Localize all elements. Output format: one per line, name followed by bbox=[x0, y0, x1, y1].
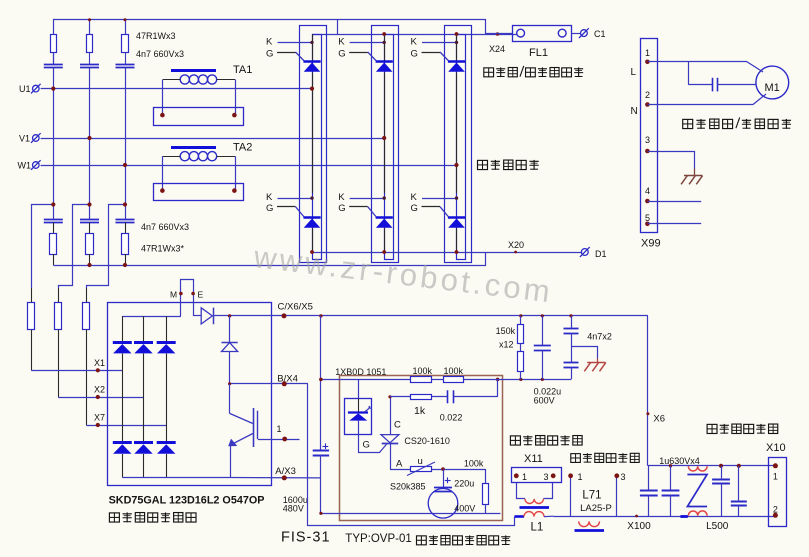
thyristor Q2 (bottom, module 1) bbox=[266, 192, 321, 228]
resistor input X2 bbox=[55, 288, 62, 397]
resistor 47R lower branch 2 bbox=[86, 223, 94, 265]
text 整流与斩波模块 bbox=[109, 512, 196, 522]
svg-text:100k: 100k bbox=[464, 459, 484, 469]
text 励磁电流信号 bbox=[571, 453, 639, 462]
capacitor 1u (2) bbox=[662, 466, 680, 516]
ground X99 bbox=[681, 176, 702, 185]
junction module 2 top bbox=[382, 32, 386, 36]
svg-text:X24: X24 bbox=[489, 44, 505, 54]
svg-text:1: 1 bbox=[773, 472, 778, 482]
label 1600u bbox=[283, 495, 308, 505]
svg-text:A: A bbox=[396, 459, 403, 470]
svg-text:G: G bbox=[266, 49, 273, 60]
wire X6 bbox=[646, 316, 665, 466]
label X2 bbox=[94, 385, 105, 395]
label X7 bbox=[94, 413, 105, 423]
capacitor 4n7x2 pair bbox=[564, 316, 612, 380]
thyristor Q4 (bottom, module 2) bbox=[338, 192, 393, 228]
svg-text:G: G bbox=[338, 49, 345, 60]
svg-text:3: 3 bbox=[645, 135, 650, 145]
svg-text:K: K bbox=[411, 36, 418, 47]
thyristor Q3 (top, module 2) bbox=[338, 36, 393, 71]
wire branch 2 down bbox=[89, 68, 91, 219]
svg-text:G: G bbox=[363, 440, 370, 451]
thyristor CS20-1610 bbox=[381, 395, 450, 469]
svg-text:4: 4 bbox=[645, 186, 650, 196]
diode BOD bbox=[345, 379, 372, 434]
label X1 bbox=[94, 358, 105, 368]
resistor 1k bbox=[411, 395, 432, 418]
connector X11 bbox=[512, 453, 562, 483]
box OVP-01 (brown) bbox=[340, 376, 503, 521]
wire X99 pin1 to motor bbox=[647, 62, 763, 73]
svg-text:L500: L500 bbox=[706, 521, 729, 532]
wire X99 pin5 bbox=[647, 223, 701, 225]
wire lower jogs bbox=[32, 202, 128, 288]
wire A row bbox=[390, 456, 486, 471]
capacitor 4n7 top branch 3 bbox=[116, 65, 135, 68]
svg-text:600V: 600V bbox=[534, 396, 555, 406]
capacitor 1600u 480V bbox=[313, 316, 329, 513]
terminal W1 bbox=[18, 160, 41, 170]
resistor 47R lower branch 3 bbox=[122, 223, 129, 265]
wire column 1 mid bbox=[122, 354, 124, 443]
current sensor L71 bbox=[568, 472, 625, 531]
svg-text:X20: X20 bbox=[508, 240, 524, 250]
wire lower bus bbox=[53, 252, 485, 267]
svg-text:3: 3 bbox=[544, 472, 549, 482]
svg-text:150k: 150k bbox=[496, 326, 516, 336]
wire G path bbox=[359, 435, 387, 453]
diode rectifier top D3 bbox=[157, 343, 176, 354]
wire B/X4 bbox=[228, 381, 308, 386]
svg-text:L: L bbox=[631, 67, 637, 78]
wire W1 bbox=[41, 163, 457, 167]
svg-text:X99: X99 bbox=[641, 238, 661, 250]
thyristor Q5 (top, module 3) bbox=[411, 36, 466, 71]
shunt FL1 bbox=[513, 26, 572, 60]
text 励磁信号反馈 bbox=[510, 435, 582, 445]
svg-text:X1: X1 bbox=[94, 358, 105, 368]
terminal U1 bbox=[19, 84, 41, 94]
svg-text:400V: 400V bbox=[454, 504, 475, 514]
svg-text:M1: M1 bbox=[765, 82, 780, 94]
svg-text:1: 1 bbox=[578, 472, 583, 482]
wire C/X6/X5 bbox=[228, 313, 648, 318]
svg-text:A/X3: A/X3 bbox=[275, 466, 296, 477]
current transformer TA2 bbox=[154, 142, 253, 201]
svg-text:5: 5 bbox=[645, 213, 650, 223]
svg-text:G: G bbox=[338, 203, 345, 214]
svg-text:K: K bbox=[411, 192, 418, 203]
svg-text:1k: 1k bbox=[414, 405, 426, 417]
capacitor 4n7 top branch 1 bbox=[44, 65, 63, 68]
wire X2 bbox=[58, 395, 143, 399]
wire A/X3 bottom bbox=[319, 512, 500, 515]
thyristor module 1 box bbox=[300, 26, 327, 263]
resistor 100k (c) bbox=[464, 459, 489, 514]
wire rectifier top bus bbox=[122, 316, 180, 342]
resistor input X7 bbox=[83, 288, 90, 425]
thyristor module 2 box bbox=[372, 26, 399, 263]
svg-text:FIS-31: FIS-31 bbox=[281, 530, 331, 546]
svg-text:LA25-P: LA25-P bbox=[580, 503, 612, 514]
rectifier box SKD75GAL bbox=[108, 303, 272, 486]
diode rectifier bottom D6 bbox=[157, 443, 176, 454]
svg-text:4n7 660Vx3: 4n7 660Vx3 bbox=[141, 222, 189, 232]
wire column 3 mid bbox=[166, 354, 168, 443]
connector X10 bbox=[766, 442, 787, 527]
capacitor 0.022u 600V bbox=[534, 316, 562, 406]
capacitor 4n7 lower branch 2 bbox=[80, 220, 99, 223]
svg-text:C: C bbox=[394, 420, 401, 431]
label X20 bbox=[508, 240, 524, 250]
ground (4n7 mid) bbox=[571, 347, 606, 372]
svg-text:K: K bbox=[338, 36, 345, 47]
svg-text:C1: C1 bbox=[594, 29, 606, 39]
terminal V1 bbox=[19, 133, 41, 143]
svg-text:X6: X6 bbox=[653, 414, 665, 425]
wire column 1 bottom bbox=[122, 454, 124, 478]
svg-text:C/X6/X5: C/X6/X5 bbox=[278, 302, 313, 313]
junction dots phase to modules bbox=[310, 87, 459, 168]
wire rectifier bottom bus bbox=[122, 477, 230, 479]
svg-text:0.022: 0.022 bbox=[440, 413, 463, 423]
thyristor module 2 conductor bbox=[384, 34, 386, 252]
svg-text:1XB0D 1051: 1XB0D 1051 bbox=[335, 367, 386, 377]
svg-text:V1: V1 bbox=[19, 134, 30, 144]
svg-text:220u: 220u bbox=[454, 479, 474, 489]
svg-text:TYP:OVP-01: TYP:OVP-01 bbox=[345, 533, 411, 545]
wire 1k row bbox=[390, 379, 498, 396]
svg-text:W1: W1 bbox=[18, 161, 32, 171]
svg-text:1u630Vx4: 1u630Vx4 bbox=[659, 456, 700, 466]
label A/X3 bbox=[275, 466, 296, 477]
text 励磁过压保护组件 bbox=[416, 535, 510, 545]
wire OVP top row bbox=[319, 378, 571, 382]
diode freewheel bbox=[222, 316, 238, 384]
svg-text:1: 1 bbox=[522, 472, 527, 482]
svg-text:B/X4: B/X4 bbox=[277, 374, 298, 385]
capacitor 1u (3) bbox=[712, 466, 730, 516]
jumper M-E loop bbox=[170, 280, 204, 317]
svg-text:G: G bbox=[411, 203, 418, 214]
svg-text:L1: L1 bbox=[531, 522, 544, 534]
wire gate 1 bbox=[258, 424, 300, 441]
svg-text:3: 3 bbox=[621, 472, 626, 482]
svg-text:1: 1 bbox=[645, 48, 650, 58]
wire branch 3 down bbox=[125, 68, 127, 219]
diode rectifier bottom D5 bbox=[134, 443, 153, 454]
diode rectifier bottom D4 bbox=[113, 443, 132, 454]
label TYP OVP bbox=[345, 533, 411, 545]
capacitor 220u 400V bbox=[428, 469, 475, 518]
wire X7 bbox=[86, 423, 166, 427]
connector X99 bbox=[631, 39, 661, 250]
wire L1 to X10 bbox=[554, 516, 776, 518]
resistor 100k (b) bbox=[444, 366, 464, 383]
wire X99 pin2 to motor bbox=[647, 94, 766, 105]
capacitor 1u (1) bbox=[640, 466, 658, 516]
svg-text:E: E bbox=[198, 290, 204, 300]
svg-text:G: G bbox=[411, 49, 418, 60]
transistor IGBT chopper bbox=[228, 384, 257, 478]
resistor 47R top branch 2 bbox=[87, 35, 93, 65]
label 47R1Wx3 bbox=[136, 31, 176, 41]
svg-text:FL1: FL1 bbox=[529, 47, 548, 59]
svg-text:X100: X100 bbox=[627, 521, 651, 532]
label 1XB0D bbox=[335, 367, 386, 377]
text 励磁电流输出 bbox=[707, 424, 778, 434]
svg-text:K: K bbox=[266, 36, 273, 47]
label 4n7 660Vx3 bbox=[136, 49, 184, 59]
label C/X6/X5 bbox=[278, 302, 313, 313]
resistor input X1 bbox=[28, 288, 35, 370]
wire B/X4 return bbox=[308, 384, 515, 526]
thyristor Q1 (top, module 1) bbox=[266, 36, 321, 71]
thyristor module 3 conductor bbox=[456, 34, 458, 252]
svg-text:CS20-1610: CS20-1610 bbox=[404, 436, 450, 446]
capacitor 4n7 lower branch 3 bbox=[116, 220, 135, 223]
text 散热风机/电源外供 bbox=[683, 117, 791, 128]
diode rectifier top D1 bbox=[113, 343, 132, 354]
wire to FL1 bbox=[485, 33, 512, 35]
text 分流器/外接电流表 bbox=[484, 66, 583, 77]
resistor 100k (a) bbox=[411, 366, 433, 383]
svg-text:47R1Wx3*: 47R1Wx3* bbox=[141, 244, 185, 254]
resistor 47R lower branch 1 bbox=[50, 223, 57, 265]
wire branch 1 down bbox=[53, 68, 55, 219]
svg-text:K: K bbox=[266, 192, 273, 203]
svg-text:4n7 660Vx3: 4n7 660Vx3 bbox=[136, 49, 184, 59]
transformer L1 bbox=[515, 483, 554, 534]
label 4n7 660Vx3 lower bbox=[141, 222, 189, 232]
terminal D1 bbox=[580, 247, 607, 259]
choke L500 bbox=[680, 466, 728, 532]
capacitor motor bbox=[688, 62, 756, 92]
label B/X4 bbox=[277, 374, 298, 385]
diode rectifier top D2 bbox=[134, 343, 153, 354]
svg-text:S20k385: S20k385 bbox=[390, 482, 426, 492]
wire A/X3 bbox=[230, 475, 321, 480]
svg-text:K: K bbox=[338, 192, 345, 203]
svg-text:X2: X2 bbox=[94, 385, 105, 395]
motor M1 bbox=[756, 66, 789, 99]
junction module 3 top bbox=[455, 32, 459, 36]
label SKD75GAL bbox=[109, 495, 265, 507]
wire top bus bbox=[54, 18, 486, 64]
label X100 bbox=[627, 515, 651, 532]
thyristor module 1 conductor bbox=[312, 34, 314, 252]
svg-text:47R1Wx3: 47R1Wx3 bbox=[136, 31, 176, 41]
svg-text:100k: 100k bbox=[413, 366, 433, 376]
wire filter top rail bbox=[648, 464, 776, 468]
wire X1 bbox=[31, 368, 122, 372]
wire FL1 to C1 bbox=[571, 33, 580, 35]
svg-text:X11: X11 bbox=[524, 453, 543, 465]
svg-text:L71: L71 bbox=[582, 490, 601, 502]
wire column 2 mid bbox=[143, 354, 145, 443]
svg-text:X10: X10 bbox=[766, 442, 786, 454]
svg-text:u: u bbox=[418, 456, 423, 467]
current transformer TA1 bbox=[154, 64, 253, 126]
varistor Z bbox=[687, 475, 707, 507]
label 47R1Wx3* lower bbox=[141, 244, 185, 254]
label 1u630Vx4 bbox=[659, 456, 700, 466]
svg-text:TA2: TA2 bbox=[233, 142, 252, 154]
svg-text:4n7x2: 4n7x2 bbox=[587, 332, 612, 342]
label X24 bbox=[489, 44, 505, 54]
svg-text:G: G bbox=[266, 203, 273, 214]
wire K bus bbox=[312, 20, 517, 36]
wire V1 bbox=[41, 136, 385, 140]
svg-text:x12: x12 bbox=[499, 340, 514, 350]
svg-text:D1: D1 bbox=[595, 249, 607, 259]
resistor 47R top branch 3 bbox=[122, 35, 129, 65]
label FIS-31 bbox=[281, 530, 331, 546]
resistor 150k x12 chain bbox=[496, 316, 524, 380]
thyristor Q6 (bottom, module 3) bbox=[411, 192, 466, 228]
svg-text:SKD75GAL 123D16L2 O547OP: SKD75GAL 123D16L2 O547OP bbox=[109, 495, 265, 507]
watermark center bbox=[251, 239, 555, 309]
svg-text:100k: 100k bbox=[444, 366, 464, 376]
capacitor 0.022 bbox=[440, 390, 463, 422]
svg-text:1: 1 bbox=[277, 424, 282, 434]
svg-text:X7: X7 bbox=[94, 413, 105, 423]
svg-text:N: N bbox=[631, 106, 638, 117]
svg-text:U1: U1 bbox=[19, 84, 31, 94]
capacitor 4n7 top branch 2 bbox=[80, 65, 99, 68]
wire column 3 bottom bbox=[166, 454, 168, 478]
resistor 47R top branch 1 bbox=[51, 35, 57, 65]
svg-text:2: 2 bbox=[645, 90, 650, 100]
terminal C1 bbox=[579, 28, 606, 39]
svg-text:TA1: TA1 bbox=[233, 64, 252, 76]
capacitor 4n7 lower branch 1 bbox=[44, 220, 63, 223]
wire X20 bus bbox=[310, 250, 581, 254]
wire U1 bbox=[41, 87, 312, 91]
svg-text:2: 2 bbox=[773, 505, 778, 515]
text 调压主回路 bbox=[478, 160, 539, 170]
svg-text:480V: 480V bbox=[283, 504, 304, 514]
capacitor 1u (4) bbox=[731, 466, 747, 516]
wire X99 pin3 bbox=[647, 152, 694, 176]
svg-text:M: M bbox=[170, 290, 177, 300]
wire X99 pin4 bbox=[647, 201, 701, 203]
varistor S20k385 bbox=[390, 462, 435, 492]
wire column 2 bottom bbox=[143, 454, 145, 478]
label 480V bbox=[283, 504, 304, 514]
thyristor module 3 box bbox=[445, 26, 472, 263]
diode boost (M-E) bbox=[193, 308, 230, 325]
